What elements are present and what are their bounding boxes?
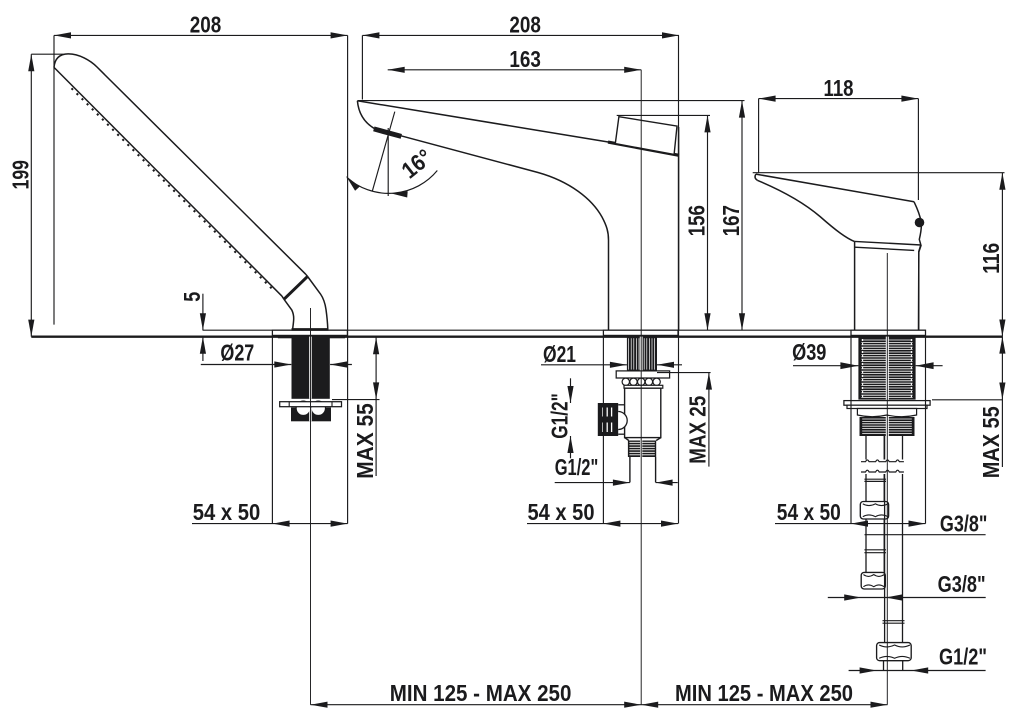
svg-text:156: 156 (683, 205, 709, 236)
svg-text:54 x 50: 54 x 50 (528, 499, 595, 525)
svg-text:208: 208 (190, 12, 222, 38)
svg-text:G1/2": G1/2" (546, 393, 572, 439)
svg-text:5: 5 (179, 292, 205, 302)
svg-text:MAX 55: MAX 55 (352, 403, 378, 479)
svg-text:167: 167 (718, 205, 744, 236)
svg-text:G1/2": G1/2" (939, 644, 987, 670)
svg-text:G1/2": G1/2" (555, 454, 599, 480)
svg-text:116: 116 (978, 243, 1004, 274)
svg-text:Ø39: Ø39 (792, 339, 826, 365)
svg-text:MAX 55: MAX 55 (978, 406, 1004, 478)
svg-text:Ø21: Ø21 (543, 341, 576, 367)
svg-text:G3/8": G3/8" (938, 571, 986, 597)
svg-text:199: 199 (7, 160, 33, 190)
svg-text:MIN 125 - MAX 250: MIN 125 - MAX 250 (675, 680, 853, 706)
svg-text:MIN 125 - MAX 250: MIN 125 - MAX 250 (390, 680, 572, 706)
svg-text:163: 163 (509, 46, 541, 72)
svg-text:MAX 25: MAX 25 (685, 396, 711, 464)
svg-text:Ø27: Ø27 (220, 339, 254, 365)
svg-text:G3/8": G3/8" (940, 511, 988, 537)
svg-text:54 x 50: 54 x 50 (777, 499, 841, 525)
svg-text:118: 118 (824, 75, 854, 101)
svg-text:54 x 50: 54 x 50 (193, 499, 260, 525)
svg-text:208: 208 (509, 12, 541, 38)
